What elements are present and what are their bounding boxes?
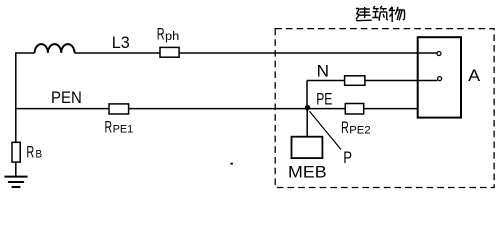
label 建筑物 (hand-drawn CJK) — [356, 6, 405, 22]
char 物 — [389, 7, 405, 22]
dashed building boundary — [275, 29, 494, 188]
svg-text:ph: ph — [165, 31, 179, 43]
svg-text:PE: PE — [316, 90, 332, 109]
wire phase L3 horizontal — [16, 52, 437, 54]
svg-text:L3: L3 — [112, 33, 130, 52]
MEB box — [292, 137, 323, 158]
wire RB to ground — [15, 162, 17, 176]
svg-text:R: R — [105, 118, 113, 136]
svg-text:R: R — [26, 144, 34, 162]
svg-text:R: R — [157, 26, 165, 44]
svg-text:R: R — [341, 118, 349, 137]
resistor Rph — [160, 47, 179, 57]
wire N horizontal — [307, 80, 437, 82]
wire diagonal P pointer — [310, 111, 342, 149]
terminal circle phase into A — [437, 52, 441, 56]
wire left vertical drop — [15, 52, 17, 142]
char 建 — [356, 7, 372, 21]
svg-text:PEN: PEN — [51, 89, 82, 107]
node junction PE dot — [305, 105, 310, 110]
box A — [418, 37, 461, 117]
svg-text:B: B — [36, 149, 43, 161]
resistor N — [345, 76, 365, 86]
wire PEN horizontal — [16, 108, 418, 110]
terminal circle N into A — [438, 77, 442, 81]
resistor RPE1 — [109, 104, 129, 114]
svg-text:PE1: PE1 — [113, 124, 134, 136]
svg-text:P: P — [343, 148, 352, 167]
resistor RB — [12, 142, 20, 162]
wire N branch vertical — [306, 81, 308, 108]
resistor RPE2 — [345, 104, 363, 115]
svg-text:A: A — [468, 66, 481, 85]
svg-text:N: N — [317, 62, 329, 81]
svg-text:PE2: PE2 — [349, 125, 370, 137]
wire junction to MEB — [306, 108, 308, 137]
inductor L3 coil — [35, 44, 75, 53]
ground — [4, 176, 27, 178]
stray dot — [230, 163, 233, 165]
char 筑 — [372, 6, 388, 21]
svg-text:MEB: MEB — [288, 163, 327, 181]
